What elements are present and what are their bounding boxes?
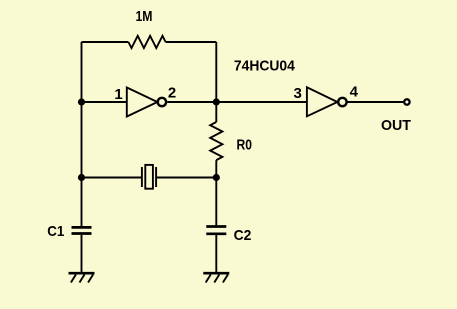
capacitor C2 bottom plate xyxy=(206,232,226,235)
ground right hatch 3 xyxy=(223,275,228,283)
ground left hatch 3 xyxy=(88,275,93,283)
svg-text:1: 1 xyxy=(114,86,122,103)
junction node dot B xyxy=(213,98,220,105)
junction node dot A xyxy=(78,98,85,105)
op-amp U1A inverter triangle xyxy=(127,88,158,117)
wire U1A output to node xyxy=(167,101,307,103)
node OUT terminal xyxy=(404,99,409,104)
wire R0 to crystal node, down to C2 xyxy=(215,160,217,225)
svg-text:74HCU04: 74HCU04 xyxy=(234,58,296,75)
capacitor C1 bottom plate xyxy=(72,232,92,235)
svg-text:C1: C1 xyxy=(47,223,64,240)
junction node dot C xyxy=(78,174,85,181)
ground left bar xyxy=(69,272,95,275)
wire right rail top xyxy=(215,42,217,102)
crystal X1 right plate xyxy=(155,167,157,187)
wire top-left lead to R1 xyxy=(82,41,129,43)
U1B output bubble xyxy=(338,98,346,106)
resistor R0 zigzag xyxy=(210,122,222,160)
ground left hatch 2 xyxy=(80,275,85,283)
svg-text:3: 3 xyxy=(294,85,302,102)
svg-text:4: 4 xyxy=(350,84,359,101)
wire input to U1A xyxy=(82,101,127,103)
ground right hatch 2 xyxy=(214,275,219,283)
svg-text:OUT: OUT xyxy=(381,117,411,134)
wire R1 to top-right corner xyxy=(166,41,217,43)
wire left node to crystal xyxy=(82,177,142,179)
wire C2 to ground xyxy=(215,235,217,272)
svg-text:2: 2 xyxy=(168,84,176,101)
ground right bar xyxy=(203,272,229,275)
svg-text:1M: 1M xyxy=(136,8,153,25)
capacitor C2 top plate xyxy=(206,225,226,228)
wire U1B output to OUT terminal xyxy=(347,101,403,103)
op-amp U1B inverter triangle xyxy=(307,87,338,116)
svg-text:R0: R0 xyxy=(237,137,253,154)
resistor R1 (1M) zigzag xyxy=(128,36,165,48)
wire C1 to ground xyxy=(81,235,83,272)
crystal X1 body rect xyxy=(145,165,153,189)
U1A output bubble xyxy=(158,98,166,106)
wire crystal to right node xyxy=(156,177,216,179)
junction node dot D xyxy=(213,174,220,181)
crystal X1 left plate xyxy=(141,167,143,187)
wire left rail xyxy=(81,42,83,226)
capacitor C1 top plate xyxy=(72,226,92,229)
ground left hatch 1 xyxy=(71,275,76,283)
wire node to R0 xyxy=(215,102,217,122)
svg-text:C2: C2 xyxy=(234,227,252,244)
ground right hatch 1 xyxy=(206,275,211,283)
